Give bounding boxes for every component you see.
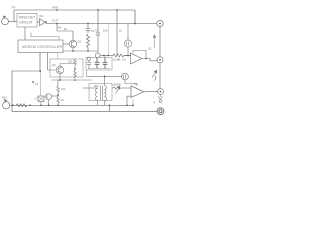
node bus1-J1 [56, 9, 58, 11]
svg-text:1k: 1k [119, 29, 123, 33]
svg-text:10k: 10k [103, 29, 108, 33]
terminal J1 top-right [157, 20, 163, 26]
wire bus1 corner down [134, 10, 136, 24]
wire X1 to op-amp2 top [125, 80, 137, 86]
wire right bus mid [159, 63, 161, 89]
polarity circle C3 [87, 57, 91, 69]
box ring-detector [17, 14, 37, 28]
capacitor C5 [103, 58, 108, 69]
wire bus1 top [14, 9, 135, 11]
wire Q2 emitter [59, 74, 61, 80]
wire R6 to diode [124, 55, 131, 57]
wire x108 faint [108, 24, 110, 56]
wire top box to controller branch2 [31, 33, 59, 41]
terminal J4 bottom-right big [157, 108, 164, 115]
wire x127 up to opamp [126, 96, 128, 105]
varistor RV1 [112, 85, 131, 93]
svg-text:D2: D2 [148, 47, 152, 51]
gate U1 buffer [37, 19, 47, 26]
box amp stage mid [50, 59, 83, 77]
wire Q1 emitter down [72, 48, 74, 51]
svg-text:MIC: MIC [2, 96, 7, 100]
wire x117 [116, 10, 118, 56]
wire source to bus1 [13, 10, 15, 22]
wire R8 mid [74, 65, 76, 71]
svg-text:22k: 22k [68, 60, 73, 64]
svg-text:C2: C2 [35, 83, 39, 86]
wire x40 down to C7 [39, 71, 41, 96]
svg-text:R4: R4 [64, 28, 68, 31]
wire x98 upper [97, 10, 99, 33]
svg-text:C7: C7 [35, 97, 39, 101]
wire x110 drop to bus [109, 105, 111, 111]
resistor R8 vertical [74, 59, 77, 65]
wire A1 feedback loop [133, 51, 146, 59]
svg-text:RING DET: RING DET [19, 16, 35, 20]
component below J3 [158, 94, 162, 102]
source symbol top-left [2, 16, 17, 25]
resistor R9 vertical [74, 71, 77, 79]
svg-text:C2: C2 [95, 29, 99, 33]
box transformer [89, 84, 112, 101]
resistor R6 on y55 [113, 54, 124, 57]
svg-text:1k: 1k [118, 58, 121, 62]
resistor R10 stack [57, 80, 60, 105]
capacitor marker plus [32, 81, 34, 83]
node A1 out [145, 58, 147, 60]
svg-text:1N4148: 1N4148 [113, 84, 122, 87]
svg-text:1k: 1k [61, 98, 65, 102]
wire A1 output [146, 59, 157, 61]
wire bus2 [46, 23, 157, 25]
node y105-c [48, 105, 50, 107]
node bus1-J2 [97, 9, 99, 11]
wire bus2 jog to Q1 [57, 24, 73, 41]
wire y88 left [83, 87, 98, 89]
node y55-b [107, 55, 109, 57]
wire y76 [87, 75, 122, 77]
node x133 [132, 105, 134, 107]
svg-text:MODEM CONTROLLER: MODEM CONTROLLER [22, 45, 62, 49]
opto LED circle [124, 24, 131, 56]
node y51-b [87, 50, 89, 52]
svg-text:C6: C6 [122, 58, 126, 62]
wire stage bottom [51, 79, 92, 81]
node stage-a [59, 79, 61, 81]
transformer T1 [96, 86, 107, 106]
svg-text:RING: RING [52, 6, 58, 10]
wire filter bottom [88, 68, 110, 70]
wire controller down to Q2 base [48, 53, 57, 71]
wire y55 left [100, 55, 113, 57]
svg-text:R2: R2 [58, 25, 62, 29]
resistor R4 vertical x88 [86, 34, 89, 48]
wire filter left edge down [86, 70, 88, 76]
node stage-b [74, 79, 76, 81]
wire top box to controller [24, 27, 26, 40]
terminal J2 right [157, 57, 163, 63]
wire x105 stub [104, 56, 106, 58]
wire L thick left [12, 53, 157, 112]
svg-text:Q2: Q2 [52, 63, 56, 67]
node R10 mid [57, 94, 59, 96]
svg-text:600: 600 [94, 84, 99, 88]
diode arrow on right bus [152, 70, 157, 81]
transistor Q4 circle on wire [95, 53, 100, 58]
wire right bus upper [159, 27, 161, 57]
arrow up near right bus [153, 34, 157, 49]
wire x57 link [57, 53, 59, 60]
node y105-a [12, 104, 14, 106]
node y105-e [109, 105, 111, 107]
op-amp A1 [124, 53, 142, 64]
capacitor C1 on x88 [86, 24, 90, 34]
capacitor C2 on x98 [96, 33, 100, 53]
wire y105 [10, 104, 133, 106]
wire controller to Q1 base [63, 43, 69, 45]
node x104 [104, 76, 106, 78]
node R8 [74, 68, 76, 70]
node tee40 [40, 70, 42, 72]
node bus1-J3 [116, 9, 118, 11]
component D3 small box [38, 96, 44, 105]
node y55-c [127, 55, 129, 57]
node bus2-J1 [56, 23, 58, 25]
wire Q2 top jog [60, 64, 75, 67]
transistor Q1 [69, 40, 76, 47]
node y105-d [57, 105, 59, 107]
node y51-a [72, 50, 74, 52]
transistor Q2 [56, 66, 64, 74]
svg-text:OUT: OUT [52, 19, 59, 23]
box filter [86, 58, 112, 71]
wire R4 to y51 [87, 48, 89, 52]
node bus2-J3 [134, 23, 136, 25]
node y55-a [103, 55, 105, 57]
transistor Q3 [46, 94, 59, 106]
box modem controller [18, 40, 63, 53]
node bus2-J2 [87, 23, 89, 25]
svg-text:Q1: Q1 [78, 40, 82, 44]
op-amp U3 [127, 86, 158, 98]
terminal MIC bottom-left [3, 99, 10, 109]
capacitor C4 [95, 58, 100, 69]
wire x133 stub up [132, 100, 134, 106]
resistor R12 on y105 [16, 104, 27, 107]
node y105-f [29, 105, 31, 107]
crystal X1 circle [122, 73, 129, 80]
svg-text:CIRCUIT: CIRCUIT [19, 21, 33, 25]
terminal J3 right [158, 89, 164, 95]
wire x104 drop [104, 76, 106, 85]
svg-text:10k: 10k [61, 87, 66, 91]
svg-text:IC1: IC1 [39, 14, 44, 18]
svg-text:TIP: TIP [11, 6, 15, 10]
wire y51 [63, 50, 98, 52]
svg-text:9: 9 [154, 101, 156, 105]
node y105-b [40, 105, 42, 107]
node x127 [126, 105, 128, 107]
